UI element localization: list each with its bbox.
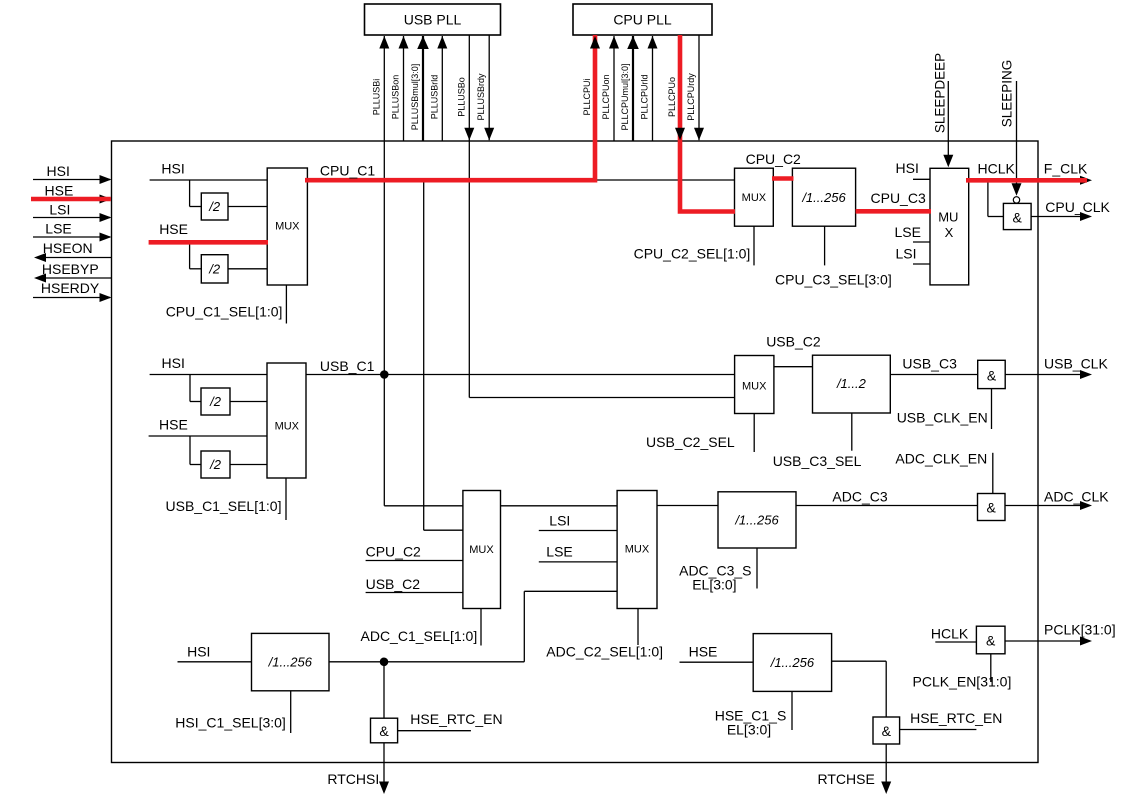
svg-text:CPU_C1: CPU_C1 <box>320 163 375 179</box>
mux CPU_C2 <box>735 168 774 226</box>
wire USB_C1 to USB_C2 mux <box>306 374 735 376</box>
svg-text:PCLK_EN[31:0]: PCLK_EN[31:0] <box>913 674 1012 690</box>
wire HSE input red overlay <box>31 197 111 202</box>
svg-text:/2: /2 <box>209 394 222 409</box>
wire USB_C3 to gate <box>890 374 977 376</box>
wire ADC_C1_SEL select <box>480 609 482 646</box>
svg-text:EL[3:0]: EL[3:0] <box>727 722 771 738</box>
svg-text:HSI: HSI <box>161 161 184 177</box>
wire HSE red to CPU_C1 mux <box>149 240 268 245</box>
and-gate USB_CLK <box>978 360 1006 388</box>
node RTCHSI junction <box>380 658 389 667</box>
wire PLLCPUon <box>613 36 615 141</box>
wire HSI stub into CPU_CLK mux <box>913 178 930 180</box>
svg-text:USB_CLK: USB_CLK <box>1044 356 1108 372</box>
svg-text:USB_C2: USB_C2 <box>366 576 421 592</box>
divider /2 (HSI, CPU_C1) <box>201 193 228 220</box>
wire USB_C3_SEL select <box>851 413 853 451</box>
svg-text:HSEBYP: HSEBYP <box>42 261 99 277</box>
svg-text:&: & <box>379 723 389 739</box>
wire USB_C2 into ADC_C1 mux <box>366 592 463 594</box>
wire USB_CLK_EN <box>991 389 993 429</box>
svg-text:HSI_C1_SEL[3:0]: HSI_C1_SEL[3:0] <box>175 715 286 731</box>
wire PLLCPUo red drop to CPU_C2 mux <box>680 35 735 212</box>
wire PLLUSBmul[3:0] bus <box>422 36 424 141</box>
inverter bubble on CPU_CLK gate <box>1013 197 1019 203</box>
svg-text:/2: /2 <box>208 261 221 276</box>
wire ADC_CLK_EN <box>992 453 994 494</box>
wire PCLK output <box>1005 640 1085 642</box>
wire HSE_RTC_EN right <box>900 729 977 731</box>
svg-text:USB PLL: USB PLL <box>404 12 462 28</box>
svg-text:HCLK: HCLK <box>931 626 969 642</box>
and-gate RTCHSE <box>873 717 900 744</box>
svg-text:MUX: MUX <box>742 192 767 204</box>
svg-text:CPU_CLK: CPU_CLK <box>1045 199 1110 215</box>
svg-text:PLLUSBrld: PLLUSBrld <box>429 75 439 120</box>
svg-text:PLLUSBi: PLLUSBi <box>371 79 381 116</box>
svg-text:SLEEPING: SLEEPING <box>1000 60 1015 128</box>
wire CPU_C3_SEL select <box>824 226 826 265</box>
divider /1...256 (HSE RTC) <box>753 634 831 692</box>
wire HSI to divider <box>178 661 252 663</box>
and-gate RTCHSI <box>371 718 398 743</box>
wire HSI input <box>33 179 110 181</box>
svg-text:HSE_RTC_EN: HSE_RTC_EN <box>910 710 1002 726</box>
svg-text:MUX: MUX <box>742 381 767 393</box>
svg-text:RTCHSI: RTCHSI <box>327 771 379 787</box>
svg-text:PLLCPUrdy: PLLCPUrdy <box>686 73 696 121</box>
wire CPU_C1 red + PLLCPUi rise <box>305 35 595 180</box>
divider /2 (HSI, USB_C1) <box>201 388 230 415</box>
svg-text:HSE_RTC_EN: HSE_RTC_EN <box>410 711 502 727</box>
wire LSE stub into CPU_CLK mux <box>913 241 930 243</box>
svg-text:PLLCPUo: PLLCPUo <box>667 77 677 117</box>
wire CPU_C1_SEL select <box>285 285 287 324</box>
wire HSE divider out <box>832 660 887 662</box>
and-gate PCLK <box>976 626 1005 654</box>
wire HSI tap to /2 <box>189 180 191 207</box>
svg-text:/1...256: /1...256 <box>734 512 779 527</box>
mux CPU_C1 <box>267 168 307 285</box>
svg-text:RTCHSE: RTCHSE <box>818 771 875 787</box>
svg-text:MUX: MUX <box>275 420 300 432</box>
wire CPU_CLK output <box>1031 216 1085 218</box>
wire CPU_C2 red segment <box>772 176 794 181</box>
wire HCLK to PCLK gate <box>935 641 976 643</box>
arrowhead PLLCPUi <box>590 36 600 49</box>
svg-text:MUX: MUX <box>275 221 300 233</box>
wire SLEEPING <box>1016 81 1018 187</box>
svg-text:USB_C1_SEL[1:0]: USB_C1_SEL[1:0] <box>166 498 282 514</box>
svg-text:F_CLK: F_CLK <box>1044 161 1088 177</box>
wire HSEON output <box>45 257 111 259</box>
svg-text:USB_CLK_EN: USB_CLK_EN <box>897 410 988 426</box>
divider /1...256 (HSI RTC) <box>252 633 330 690</box>
svg-text:MUX: MUX <box>625 544 650 556</box>
svg-text:/1...256: /1...256 <box>268 655 313 670</box>
svg-text:X: X <box>945 225 954 240</box>
svg-text:ADC_CLK: ADC_CLK <box>1044 489 1109 505</box>
wire LSI into ADC_C2 mux <box>539 530 617 532</box>
svg-text:HSI: HSI <box>162 355 185 371</box>
svg-text:PLLCPUmul[3:0]: PLLCPUmul[3:0] <box>620 63 630 130</box>
mux ADC_C1 <box>463 491 501 609</box>
wire HSE_RTC_EN left <box>398 730 471 732</box>
svg-text:HCLK: HCLK <box>978 161 1016 177</box>
svg-text:PLLUSBo: PLLUSBo <box>456 77 466 117</box>
wire USB_C1 branch down to ADC_C1 mux <box>383 375 385 506</box>
svg-text:&: & <box>882 723 892 739</box>
svg-text:LSE: LSE <box>546 544 572 560</box>
svg-text:LSI: LSI <box>896 246 917 262</box>
arrowhead PLLCPUo <box>675 128 685 141</box>
svg-text:/1...256: /1...256 <box>801 190 846 205</box>
svg-text:ADC_CLK_EN: ADC_CLK_EN <box>895 451 987 467</box>
wire /2 out to USB_C1 mux <box>230 401 267 403</box>
divider /2 (HSE, USB_C1) <box>201 451 230 478</box>
wire ADC_C3_SEL select <box>756 548 758 589</box>
svg-text:HSERDY: HSERDY <box>41 280 100 296</box>
mux ADC_C2 <box>617 491 657 609</box>
mux USB_C2 <box>735 356 774 414</box>
wire PLLCPUrdy <box>698 35 700 140</box>
wire CPU_C3 red <box>856 209 931 214</box>
wire /2 out to CPU_C1 mux <box>228 206 267 208</box>
wire LSE input <box>33 236 110 238</box>
wire PLLCPUmul[3:0] bus <box>632 36 634 141</box>
and-gate ADC_CLK <box>978 494 1006 521</box>
svg-text:HSE: HSE <box>159 221 188 237</box>
svg-text:PLLUSBrdy: PLLUSBrdy <box>476 73 486 121</box>
wire HSE tap to /2 <box>189 436 191 465</box>
divider /1...2 (USB_C3) <box>813 355 891 413</box>
wire HSE to divider <box>680 661 754 663</box>
svg-text:MUX: MUX <box>469 544 494 556</box>
svg-text:/2: /2 <box>208 199 221 214</box>
wire ADC_CLK output <box>1005 505 1085 507</box>
svg-text:HSE: HSE <box>159 416 188 432</box>
wire HSE_C1_SEL select <box>791 691 793 730</box>
CPU PLL block <box>573 4 712 35</box>
node USB_C1 junction <box>380 370 389 379</box>
svg-text:USB_C1: USB_C1 <box>320 358 375 374</box>
wire ADC_C2 mux to divider <box>657 505 718 507</box>
wire CPU_C1 (black under red) to CPU_C2 mux <box>307 179 735 181</box>
svg-text:/1...2: /1...2 <box>836 376 867 391</box>
divider /1...256 (ADC_C3) <box>718 492 796 548</box>
svg-text:HSI: HSI <box>47 163 70 179</box>
divider /2 (HSE, CPU_C1) <box>201 255 228 283</box>
system boundary rectangle <box>112 141 1039 763</box>
wire PLLUSBon <box>403 36 405 141</box>
wire USB_C2 mux to divider <box>774 366 813 368</box>
svg-text:&: & <box>986 633 996 649</box>
svg-text:/2: /2 <box>209 457 222 472</box>
wire HSI to USB_C1 mux <box>150 374 267 376</box>
svg-text:HSE: HSE <box>45 183 74 199</box>
wire LSI stub into CPU_CLK mux <box>913 263 930 265</box>
svg-text:CPU_C3_SEL[3:0]: CPU_C3_SEL[3:0] <box>775 272 892 288</box>
USB PLL block <box>365 4 501 35</box>
svg-text:LSI: LSI <box>549 513 570 529</box>
svg-text:PLLUSBon: PLLUSBon <box>391 75 401 120</box>
wire HCLK / F_CLK (black under red) <box>969 179 1081 181</box>
wire HSI divider out <box>329 661 524 663</box>
wire HSI_C1_SEL select <box>290 691 292 733</box>
wire USB_C1_SEL select <box>285 478 287 520</box>
svg-text:ADC_C3: ADC_C3 <box>832 489 887 505</box>
wire HSI to CPU_C1 mux <box>150 179 268 181</box>
wire PLLCPUrld <box>652 36 654 141</box>
svg-text:HSI: HSI <box>187 644 210 660</box>
svg-text:HSEON: HSEON <box>43 240 93 256</box>
svg-text:/1...256: /1...256 <box>770 655 815 670</box>
wire PLLUSBrld <box>441 36 443 141</box>
svg-text:CPU_C3: CPU_C3 <box>871 190 926 206</box>
mux CPU_CLK (MU X) <box>930 168 969 285</box>
svg-text:LSE: LSE <box>895 224 921 240</box>
wire CPU_C2_SEL select <box>753 226 755 265</box>
svg-text:SLEEPDEEP: SLEEPDEEP <box>933 53 948 133</box>
svg-text:LSE: LSE <box>45 221 71 237</box>
wire RTCHSE output <box>885 744 887 782</box>
mux USB_C1 <box>267 363 306 478</box>
wire CPU_C2 into ADC_C1 mux <box>366 560 463 562</box>
wire junction down to RTCHSI gate <box>383 662 385 718</box>
wire /2 out to USB_C1 mux <box>230 464 267 466</box>
wire HSEBYP output <box>45 277 111 279</box>
wire LSE into ADC_C2 mux <box>539 561 617 563</box>
and-gate CPU_CLK <box>1003 203 1031 229</box>
wire PLLUSBi <box>383 36 385 375</box>
wire HSE input (black under red) <box>33 198 104 200</box>
divider /1...256 (CPU_C3) <box>792 168 855 226</box>
wire PLLUSBo to USB_C2 mux <box>469 397 734 399</box>
wire PLLUSBo <box>468 35 470 398</box>
wire SLEEPDEEP <box>947 81 949 156</box>
wire HSE to USB_C1 mux <box>149 435 267 437</box>
svg-text:USB_C3_SEL: USB_C3_SEL <box>773 453 862 469</box>
wire RTCHSI output <box>383 743 385 782</box>
wire /2 out to CPU_C1 mux <box>228 268 267 270</box>
svg-text:EL[3:0]: EL[3:0] <box>692 577 736 593</box>
svg-text:USB_C2_SEL: USB_C2_SEL <box>646 434 735 450</box>
svg-text:CPU PLL: CPU PLL <box>613 12 672 28</box>
svg-text:&: & <box>1013 210 1023 226</box>
svg-text:ADC_C2_SEL[1:0]: ADC_C2_SEL[1:0] <box>546 644 663 660</box>
svg-text:LSI: LSI <box>49 201 70 217</box>
svg-text:PLLCPUi: PLLCPUi <box>582 78 592 115</box>
wire HSI tap to /2 <box>189 375 191 402</box>
svg-text:CPU_C2: CPU_C2 <box>746 151 801 167</box>
svg-text:CPU_C1_SEL[1:0]: CPU_C1_SEL[1:0] <box>166 304 283 320</box>
svg-text:&: & <box>987 368 997 384</box>
wire CPU_C1 branch down to ADC_C1 mux <box>423 180 425 530</box>
wire RTCHSI tap into ADC_C2 mux <box>524 590 617 592</box>
svg-text:CPU_C2: CPU_C2 <box>366 544 421 560</box>
wire HSE tap to /2 <box>189 242 191 268</box>
wire PCLK_EN select <box>990 654 992 682</box>
svg-text:USB_C2: USB_C2 <box>766 334 821 350</box>
wire LSI input <box>33 217 110 219</box>
wire ADC_C2_SEL select <box>637 609 639 646</box>
svg-text:PLLUSBmul[3:0]: PLLUSBmul[3:0] <box>410 64 420 131</box>
svg-text:HSE: HSE <box>689 644 718 660</box>
svg-text:CPU_C2_SEL[1:0]: CPU_C2_SEL[1:0] <box>634 246 751 262</box>
wire HCLK / F_CLK red overlay <box>966 178 1087 183</box>
svg-text:MU: MU <box>938 210 958 225</box>
wire HCLK branch to CPU_CLK gate <box>987 180 989 216</box>
wire USB_C2_SEL select <box>753 414 755 453</box>
svg-text:&: & <box>987 500 997 516</box>
wire USB_CLK output <box>1005 374 1085 376</box>
svg-text:PLLCPUon: PLLCPUon <box>601 74 611 119</box>
wire HSERDY input <box>33 297 110 299</box>
svg-text:HSI: HSI <box>896 160 919 176</box>
wire ADC_C3 to gate <box>796 505 978 507</box>
svg-text:PCLK[31:0]: PCLK[31:0] <box>1044 622 1116 638</box>
wire PLLUSBrdy <box>488 35 490 140</box>
svg-text:PLLCPUrld: PLLCPUrld <box>640 74 650 119</box>
wire ADC_C1 mux to ADC_C2 mux <box>501 505 618 507</box>
svg-text:USB_C3: USB_C3 <box>902 356 957 372</box>
svg-text:ADC_C1_SEL[1:0]: ADC_C1_SEL[1:0] <box>361 628 478 644</box>
